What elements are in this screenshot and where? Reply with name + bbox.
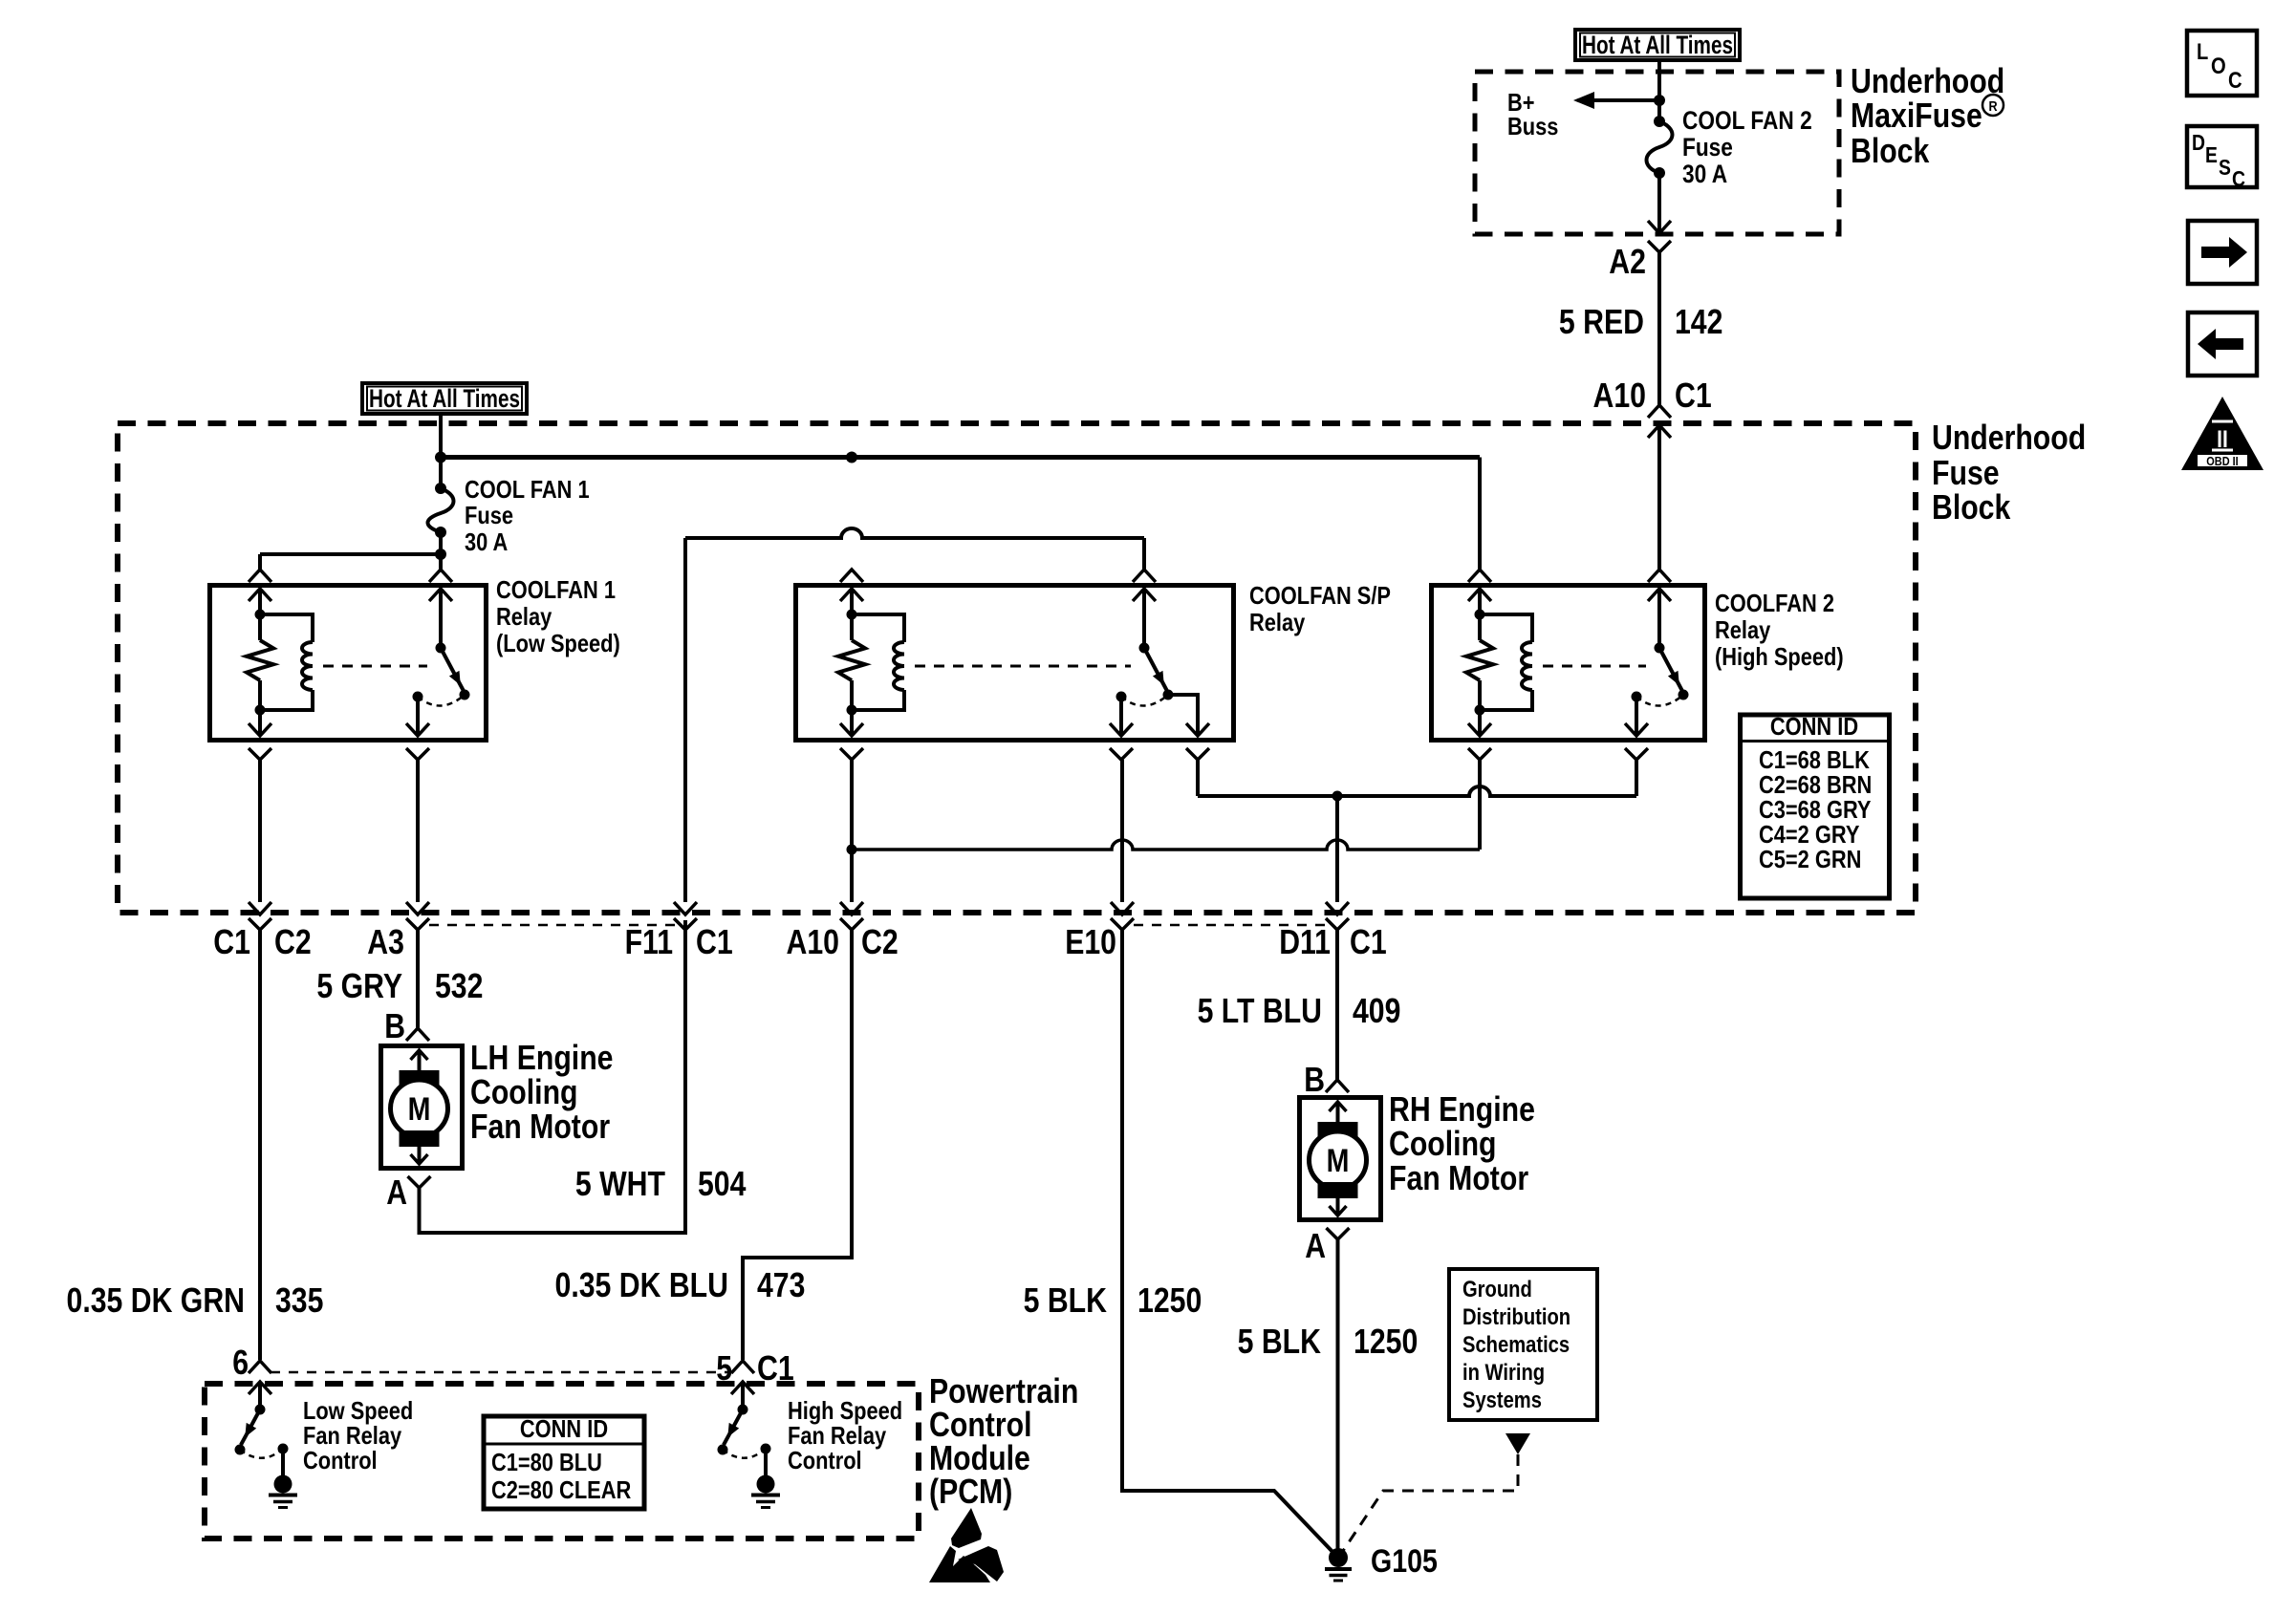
dashed throw arc PCM high-speed xyxy=(723,1449,766,1458)
svg-text:C2: C2 xyxy=(274,922,312,961)
power label box: Hot At All Times (MaxiFuse feed) xyxy=(1575,30,1740,60)
connector C1 dashed link A3-F11 xyxy=(429,924,675,927)
node: tee to D11 ground link xyxy=(847,845,857,855)
wire: S/P contact-out to E10 xyxy=(1120,760,1124,902)
svg-text:C2: C2 xyxy=(861,922,899,961)
dashed throw arc K3 COOLFAN 2 xyxy=(1636,695,1683,706)
arrow: into D11 xyxy=(1326,902,1349,915)
arrow: PCM low-speed pin into module xyxy=(249,1382,271,1394)
inductor in K1 COOLFAN 1 coil xyxy=(260,614,313,642)
svg-text:Cooling: Cooling xyxy=(470,1072,578,1111)
relay K3 COOLFAN 2 box xyxy=(1432,586,1705,741)
relay K1 COOLFAN 1 switch common pin xyxy=(429,570,452,582)
svg-text:RH Engine: RH Engine xyxy=(1389,1089,1535,1129)
svg-text:A10: A10 xyxy=(1593,376,1647,415)
svg-text:Buss: Buss xyxy=(1507,112,1558,140)
svg-text:Cooling: Cooling xyxy=(1389,1124,1497,1163)
connector A10/C2 receptacle xyxy=(840,918,863,930)
svg-text:1250: 1250 xyxy=(1354,1322,1418,1361)
Underhood MaxiFuse Block dashed box xyxy=(1475,72,1839,234)
svg-text:142: 142 xyxy=(1675,302,1722,341)
relay K1 COOLFAN 1 coil pin (top) xyxy=(249,570,271,582)
motor LH fan B terminal arrow xyxy=(411,1050,428,1060)
node: PCM low-speed contact xyxy=(235,1445,246,1455)
svg-text:Control: Control xyxy=(303,1446,378,1474)
Ground Distribution Schematics note box xyxy=(1449,1269,1597,1420)
svg-text:G105: G105 xyxy=(1371,1543,1438,1580)
icon button DESC xyxy=(2187,126,2257,187)
icon button LOC xyxy=(2187,31,2257,96)
relay K2 COOLFAN S/P coil pin (top) xyxy=(840,570,863,582)
svg-text:Underhood: Underhood xyxy=(1932,418,2086,457)
relay K3 COOLFAN 2 switch blade xyxy=(1659,648,1683,693)
dashed wire: note box to G105 xyxy=(1341,1454,1518,1554)
motor RH fan armature circle xyxy=(1310,1131,1367,1189)
connector E10 receptacle xyxy=(1111,918,1134,930)
arrow: from note box (filled, points down) xyxy=(1505,1433,1530,1454)
Powertrain Control Module dashed box xyxy=(205,1384,919,1539)
fuse F2 COOL FAN 2 30A xyxy=(1654,116,1665,127)
wire: K3 coil-out down (hops link) xyxy=(1478,760,1482,850)
wire: E10 to G105 (5 BLK 1250) xyxy=(1122,930,1336,1556)
wire: bus corner drop to K3 coil xyxy=(1478,458,1482,570)
svg-text:Relay: Relay xyxy=(1715,615,1771,644)
motor LH fan top brush xyxy=(400,1070,440,1087)
wire: S/P blade contact to second out pin xyxy=(1168,695,1198,736)
wire: A10/C2 to PCM pin 5 (0.35 DK BLU 473) xyxy=(743,930,852,1360)
wire: S/P coil-out to A10/C2 xyxy=(850,850,854,902)
node: K2 COOLFAN S/P output contact xyxy=(1116,692,1127,702)
wire: PCM high-speed contact to ground xyxy=(764,1449,768,1476)
connector LH B fork xyxy=(406,1028,429,1041)
wire: bus drop to fuse F1 xyxy=(439,458,443,489)
svg-text:B: B xyxy=(1304,1060,1325,1099)
svg-text:L: L xyxy=(2197,39,2208,65)
svg-text:COOL FAN 2: COOL FAN 2 xyxy=(1682,106,1812,135)
wire: fuse F1 out xyxy=(439,532,443,554)
node: K2 COOLFAN S/P coil bottom xyxy=(847,705,857,716)
node: PCM high-speed contact xyxy=(718,1445,728,1455)
node: K3 COOLFAN 2 output contact xyxy=(1632,692,1642,702)
Underhood Fuse Block dashed box xyxy=(118,423,1916,913)
motor LH fan box xyxy=(381,1046,463,1169)
arrow: into A3 xyxy=(406,902,429,915)
connector A10 fork xyxy=(1648,405,1671,418)
PCM high-speed driver blade xyxy=(724,1410,743,1445)
relay K3 COOLFAN 2 switch out pin xyxy=(1635,697,1638,736)
svg-text:C1: C1 xyxy=(213,922,250,961)
node: K1 COOLFAN 1 switch pivot xyxy=(436,643,446,654)
svg-text:CONN ID: CONN ID xyxy=(1770,712,1858,741)
svg-text:F11: F11 xyxy=(625,922,673,961)
icon OBD II triangle xyxy=(2181,397,2264,470)
svg-text:5 BLK: 5 BLK xyxy=(1238,1322,1321,1361)
wire: drop to K1 switch pin xyxy=(439,554,443,570)
svg-text:5 RED: 5 RED xyxy=(1559,302,1644,341)
node: bus junction for S/P coil xyxy=(846,452,857,463)
svg-text:Fan Motor: Fan Motor xyxy=(1389,1158,1528,1197)
relay K1 COOLFAN 1 box xyxy=(210,586,487,741)
wire: tee down to D11 xyxy=(1335,796,1339,902)
node: fuse F1 output junction xyxy=(435,549,446,560)
relay K3 COOLFAN 2 coil pin (top) xyxy=(1468,570,1491,582)
arrow: into E10 xyxy=(1111,902,1134,915)
svg-text:5 WHT: 5 WHT xyxy=(575,1164,665,1203)
node: K2 COOLFAN S/P switch pivot xyxy=(1139,643,1150,654)
relay K2 COOLFAN S/P box xyxy=(796,586,1234,741)
node: K1 COOLFAN 1 coil bottom xyxy=(255,705,266,716)
svg-text:M: M xyxy=(1327,1143,1350,1179)
svg-text:6: 6 xyxy=(232,1343,249,1382)
inductor in K3 COOLFAN 2 coil xyxy=(1480,614,1532,642)
node: K3 COOLFAN 2 coil top xyxy=(1475,610,1485,620)
dashed throw arc K1 COOLFAN 1 xyxy=(418,695,465,706)
node: K1 COOLFAN 1 output contact xyxy=(413,692,423,702)
svg-text:MaxiFuse: MaxiFuse xyxy=(1851,96,1982,135)
connector A2 receptacle xyxy=(1648,241,1671,252)
icon button next (right arrow) xyxy=(2188,221,2257,284)
connector LH A receptacle xyxy=(408,1176,431,1188)
svg-text:C5=2 GRN: C5=2 GRN xyxy=(1759,845,1861,873)
svg-text:Underhood: Underhood xyxy=(1851,61,2004,100)
svg-text:Relay: Relay xyxy=(1249,608,1306,636)
wire: main B+ bus xyxy=(441,455,1480,460)
connector C1/C2 receptacle xyxy=(249,918,271,930)
relay K2 COOLFAN S/P coil out pin xyxy=(850,710,854,736)
node: K3 COOLFAN 2 blade contact xyxy=(1679,690,1689,700)
svg-text:Distribution: Distribution xyxy=(1462,1304,1570,1330)
wire: C1/C2 to PCM pin 6 (0.35 DK GRN 335) xyxy=(258,930,262,1360)
PCM low-speed driver blade xyxy=(241,1410,260,1445)
node: bus junction at fuse F1 xyxy=(435,452,446,463)
wire: F11 riser to S/P common (hops coil wire) xyxy=(685,528,1144,538)
connector RH B fork xyxy=(1326,1080,1349,1092)
node: PCM high-speed ground contact xyxy=(761,1444,771,1454)
svg-text:OBD II: OBD II xyxy=(2206,454,2238,468)
svg-text:532: 532 xyxy=(435,966,483,1005)
CONN ID table (fuse block) xyxy=(1741,715,1890,898)
svg-text:0.35 DK BLU: 0.35 DK BLU xyxy=(555,1265,729,1304)
svg-text:Hot At All Times: Hot At All Times xyxy=(369,384,520,413)
svg-text:C: C xyxy=(2232,166,2245,191)
connector D11 receptacle xyxy=(1326,918,1349,930)
svg-text:C: C xyxy=(2228,68,2242,94)
PCM connector dashed line pin6-pin5 xyxy=(271,1371,732,1374)
dashed throw arc K2 COOLFAN S/P xyxy=(1121,695,1168,706)
motor LH fan armature circle xyxy=(391,1080,448,1137)
wire: B+ buss feed xyxy=(1592,98,1659,102)
svg-text:1250: 1250 xyxy=(1137,1280,1202,1320)
svg-text:A: A xyxy=(386,1173,407,1212)
svg-text:M: M xyxy=(408,1091,431,1128)
wire: S/P blade pin down to link xyxy=(1196,760,1200,796)
relay K1 COOLFAN 1 switch out pin xyxy=(416,697,420,736)
node: K2 COOLFAN S/P blade contact xyxy=(1163,690,1174,700)
svg-text:D: D xyxy=(2192,130,2205,155)
svg-text:Relay: Relay xyxy=(496,602,552,631)
svg-text:S: S xyxy=(2219,155,2231,180)
arrow: into C1/C2 xyxy=(249,902,271,915)
arrow: PCM high-speed pin into module xyxy=(731,1382,754,1394)
svg-text:Fuse: Fuse xyxy=(465,501,513,529)
relay K2 COOLFAN S/P switch blade xyxy=(1144,648,1168,693)
svg-text:409: 409 xyxy=(1353,991,1400,1030)
node: link tee to D11 xyxy=(1332,791,1343,802)
motor RH fan B terminal arrow xyxy=(1330,1102,1347,1111)
ESD sensitive device symbol xyxy=(951,1508,982,1548)
dashed link K1 COOLFAN 1 coil to switch xyxy=(323,665,427,668)
svg-text:335: 335 xyxy=(275,1280,323,1320)
wire: D11 to RH motor B (5 LT BLU 409) xyxy=(1335,930,1339,1080)
wire: K1 coil-out to C1/C2 connector xyxy=(258,760,262,902)
svg-text:O: O xyxy=(2211,54,2226,79)
wire: A2 to A10 (5 RED 142) xyxy=(1657,252,1661,405)
connector RH A receptacle xyxy=(1327,1228,1350,1239)
svg-text:(PCM): (PCM) xyxy=(929,1472,1012,1511)
svg-text:5 BLK: 5 BLK xyxy=(1024,1280,1107,1320)
node: K1 COOLFAN 1 blade contact xyxy=(460,690,470,700)
resistor in K2 COOLFAN S/P coil xyxy=(850,614,854,640)
svg-text:D11: D11 xyxy=(1279,922,1331,961)
svg-text:Fan Motor: Fan Motor xyxy=(470,1107,610,1146)
svg-text:473: 473 xyxy=(757,1265,805,1304)
node: PCM low-speed ground contact xyxy=(278,1444,289,1454)
svg-text:(High Speed): (High Speed) xyxy=(1715,642,1844,671)
motor LH fan A terminal arrow xyxy=(418,1145,422,1164)
arrow: B+ buss (points left) xyxy=(1573,92,1594,109)
node: B+ buss junction xyxy=(1654,95,1665,106)
svg-text:Schematics: Schematics xyxy=(1462,1332,1570,1358)
wire: link S/P blade to K3 switch-out (hops K3 coil wire) xyxy=(1198,786,1636,796)
svg-text:Systems: Systems xyxy=(1462,1388,1542,1413)
relay K2 COOLFAN S/P switch out pin xyxy=(1119,697,1123,736)
arrow: into F11 xyxy=(674,902,697,915)
motor LH fan bottom brush xyxy=(400,1130,440,1147)
svg-text:(Low Speed): (Low Speed) xyxy=(496,629,620,657)
svg-text:COOLFAN 2: COOLFAN 2 xyxy=(1715,589,1834,617)
svg-text:Fuse: Fuse xyxy=(1682,133,1733,161)
svg-text:C1: C1 xyxy=(1675,376,1712,415)
svg-text:E10: E10 xyxy=(1065,922,1116,961)
svg-text:5 LT BLU: 5 LT BLU xyxy=(1198,991,1322,1030)
fuse F1 COOL FAN 1 30A xyxy=(435,483,446,494)
wire: Hot At All Times to B+ junction xyxy=(1657,60,1661,100)
svg-text:Control: Control xyxy=(788,1446,862,1474)
node: PCM high-speed driver pivot xyxy=(738,1405,748,1415)
connector C1 dashed link E10-D11 xyxy=(1134,924,1327,927)
wire: K1 switch-out to A3 xyxy=(416,760,420,902)
svg-text:CONN ID: CONN ID xyxy=(520,1414,608,1443)
node: PCM low-speed driver pivot xyxy=(255,1405,266,1415)
svg-text:A2: A2 xyxy=(1609,242,1646,281)
connector A3 receptacle xyxy=(406,918,429,930)
wire: drop to K1 coil pin xyxy=(258,554,262,570)
svg-text:5 GRY: 5 GRY xyxy=(316,966,402,1005)
connector pin 5 fork xyxy=(731,1361,754,1373)
svg-text:A: A xyxy=(1305,1226,1326,1265)
icon button back (left arrow) xyxy=(2188,312,2257,376)
svg-text:30 A: 30 A xyxy=(1682,160,1727,188)
svg-text:E: E xyxy=(2205,142,2218,167)
power label box: Hot At All Times (fuse block feed) xyxy=(362,383,527,414)
svg-text:Hot At All Times: Hot At All Times xyxy=(1582,31,1733,59)
wire: ground link K3 coil-out to A10/C2 tee (hops E10, D11) xyxy=(852,840,1480,850)
svg-text:A3: A3 xyxy=(367,922,404,961)
svg-text:COOL FAN 1: COOL FAN 1 xyxy=(465,475,590,504)
svg-text:504: 504 xyxy=(698,1164,746,1203)
dashed link K2 COOLFAN S/P coil to switch xyxy=(915,665,1131,668)
relay K2 COOLFAN S/P switch common pin xyxy=(1133,570,1156,582)
relay K3 COOLFAN 2 coil out pin xyxy=(1478,710,1482,736)
wire: S/P coil-out down xyxy=(850,760,854,850)
wire: junction to fuse F2 xyxy=(1657,100,1661,121)
wire: fuse out to relay K1 coil xyxy=(260,552,441,556)
relay K1 COOLFAN 1 switch blade xyxy=(441,648,465,693)
ground G105 xyxy=(1329,1548,1348,1567)
wire: RH motor A to G105 (5 BLK 1250) xyxy=(1336,1239,1340,1552)
wire: fuse F2 to A2 xyxy=(1657,173,1661,233)
svg-text:A10: A10 xyxy=(787,922,840,961)
connector pin 6 fork xyxy=(249,1361,271,1373)
ground (PCM low-speed) xyxy=(274,1475,292,1494)
ground (PCM high-speed) xyxy=(757,1475,775,1494)
motor RH fan A terminal arrow xyxy=(1336,1196,1340,1216)
node: K3 COOLFAN 2 coil bottom xyxy=(1475,705,1485,716)
svg-text:0.35 DK GRN: 0.35 DK GRN xyxy=(67,1280,246,1320)
svg-text:C1=80 BLU: C1=80 BLU xyxy=(491,1448,602,1476)
svg-text:R: R xyxy=(1988,98,1997,115)
resistor in K1 COOLFAN 1 coil xyxy=(258,614,262,640)
wire: Hot At All Times into fuse block xyxy=(439,414,443,457)
inductor in K2 COOLFAN S/P coil xyxy=(852,614,904,642)
wire: A10/C1 drop to K3 common xyxy=(1657,425,1661,570)
wire: LH motor A to F11 (5 WHT 504) xyxy=(420,920,686,1233)
wire: PCM low-speed contact to ground xyxy=(281,1449,285,1476)
relay K1 COOLFAN 1 coil out pin xyxy=(258,710,262,736)
wire: A3 to LH motor B (5 GRY 532) xyxy=(416,930,420,1028)
wire: F11 riser xyxy=(683,538,687,902)
connector F11 receptacle xyxy=(674,918,697,930)
svg-text:C1: C1 xyxy=(1350,922,1387,961)
motor RH fan box xyxy=(1300,1098,1381,1220)
wire: corner drop to S/P common xyxy=(1142,538,1146,570)
node: K1 COOLFAN 1 coil top xyxy=(255,610,266,620)
svg-text:COOLFAN S/P: COOLFAN S/P xyxy=(1249,581,1391,610)
arrow: into A10/C2 xyxy=(840,902,863,915)
svg-text:Fuse: Fuse xyxy=(1932,453,2000,492)
svg-text:in Wiring: in Wiring xyxy=(1462,1360,1545,1386)
svg-text:C2=80 CLEAR: C2=80 CLEAR xyxy=(491,1475,631,1504)
svg-text:LH Engine: LH Engine xyxy=(470,1038,614,1077)
svg-text:Block: Block xyxy=(1932,487,2011,527)
svg-text:COOLFAN 1: COOLFAN 1 xyxy=(496,575,616,604)
svg-text:B: B xyxy=(384,1006,405,1045)
svg-text:C1: C1 xyxy=(696,922,733,961)
dashed throw arc PCM low-speed xyxy=(240,1449,283,1458)
motor RH fan top brush xyxy=(1318,1122,1358,1138)
arrow: into A2 xyxy=(1648,221,1671,233)
svg-text:Ground: Ground xyxy=(1462,1277,1532,1302)
node: K2 COOLFAN S/P coil top xyxy=(847,610,857,620)
CONN ID table (PCM) xyxy=(484,1416,644,1509)
dashed link K3 COOLFAN 2 coil to switch xyxy=(1543,665,1646,668)
wire: K3 switch-out pin down to link xyxy=(1635,760,1638,796)
svg-text:Block: Block xyxy=(1851,131,1930,170)
motor RH fan bottom brush xyxy=(1318,1182,1358,1198)
arrow: C1 into fuse block xyxy=(1648,425,1671,438)
node: K3 COOLFAN 2 switch pivot xyxy=(1655,643,1665,654)
svg-text:30 A: 30 A xyxy=(465,527,508,556)
resistor in K3 COOLFAN 2 coil xyxy=(1478,614,1482,640)
relay K3 COOLFAN 2 switch common pin xyxy=(1648,570,1671,582)
